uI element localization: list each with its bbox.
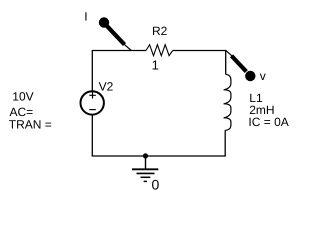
svg-text:V2: V2 (99, 80, 114, 94)
voltage marker v : tip dot (245, 71, 255, 81)
ground stem (145, 156, 147, 169)
minus sign (89, 109, 96, 111)
svg-text:I: I (84, 10, 87, 24)
wire top-right horizontal (173, 50, 227, 52)
junction node at ground (143, 153, 148, 158)
svg-text:TRAN =: TRAN = (9, 118, 52, 132)
plus sign (89, 92, 96, 99)
svg-text:1: 1 (152, 57, 159, 72)
ground bar 4 (144, 180, 147, 182)
current marker I : probe handle (106, 25, 125, 45)
ground bar 2 (137, 172, 155, 174)
ground bar 3 (141, 176, 151, 178)
wire bottom horizontal (92, 155, 226, 157)
wire right vertical upper (225, 50, 227, 74)
svg-text:10V: 10V (12, 90, 33, 104)
resistor R2 (146, 45, 173, 56)
voltage marker v : probe line thin (226, 50, 233, 56)
svg-text:IC = 0A: IC = 0A (248, 115, 288, 129)
ground bar 1 (132, 168, 158, 170)
wire right vertical lower (224, 130, 226, 156)
wire left vertical lower (91, 115, 93, 156)
svg-text:R2: R2 (152, 24, 168, 38)
svg-text:0: 0 (152, 177, 160, 193)
source V2 (81, 91, 104, 114)
svg-text:v: v (260, 69, 266, 83)
current marker I : probe line thin (124, 44, 131, 50)
voltage marker v : probe handle (232, 56, 247, 72)
wire left vertical upper (91, 50, 93, 91)
current marker I : tip dot (99, 17, 109, 27)
inductor L1 (224, 74, 231, 130)
wire top-left horizontal (92, 50, 146, 52)
